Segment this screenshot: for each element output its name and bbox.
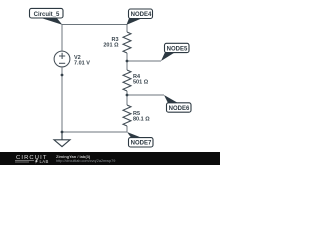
svg-text:NODE5: NODE5 <box>167 47 188 53</box>
svg-text:http://circuitlab.com/cvq/2a2m: http://circuitlab.com/cvq/2a2mwp79 <box>56 159 115 163</box>
resistor R4 <box>123 70 131 91</box>
svg-text:80.1 Ω: 80.1 Ω <box>133 117 150 123</box>
wire R5 bottom <box>126 126 128 132</box>
svg-text:LAB: LAB <box>40 159 49 164</box>
wire top rail <box>62 24 127 26</box>
junction bottom left <box>61 131 64 134</box>
label R5 value <box>133 111 150 123</box>
wire R3-R4 <box>126 53 128 70</box>
wire R4-R5 <box>126 91 128 105</box>
footer logo CIRCUIT LAB <box>15 155 49 164</box>
ground <box>54 132 70 147</box>
node Circuit_5 <box>30 8 64 24</box>
wire left vertical bottom <box>61 67 63 132</box>
resistor R5 <box>123 105 131 126</box>
resistor R3 <box>123 32 131 53</box>
svg-text:7.01 V: 7.01 V <box>74 60 90 66</box>
node NODE4 <box>127 9 153 25</box>
node NODE5 <box>161 43 189 61</box>
junction node R4/R5 <box>126 94 129 97</box>
footer bar <box>0 152 220 165</box>
node NODE6 <box>164 95 191 112</box>
label V2 value <box>74 55 90 67</box>
wire node6 tap <box>127 94 164 96</box>
voltage source V2 <box>54 51 70 67</box>
label R3 value <box>103 37 119 49</box>
svg-text:NODE4: NODE4 <box>131 12 152 18</box>
wire left vertical top <box>61 25 63 52</box>
label R4 value <box>133 74 149 86</box>
node NODE7 <box>127 132 153 147</box>
wire R3 top <box>126 25 128 33</box>
wire node5 tap <box>127 60 161 62</box>
svg-text:201 Ω: 201 Ω <box>103 43 119 49</box>
svg-text:Circuit_5: Circuit_5 <box>34 12 60 18</box>
junction node R3/R4 <box>126 60 129 63</box>
svg-text:NODE7: NODE7 <box>131 141 152 147</box>
junction dot below V2 <box>61 74 64 77</box>
svg-text:NODE6: NODE6 <box>169 106 190 112</box>
wire bottom rail <box>62 131 127 133</box>
svg-text:501 Ω: 501 Ω <box>133 80 149 86</box>
